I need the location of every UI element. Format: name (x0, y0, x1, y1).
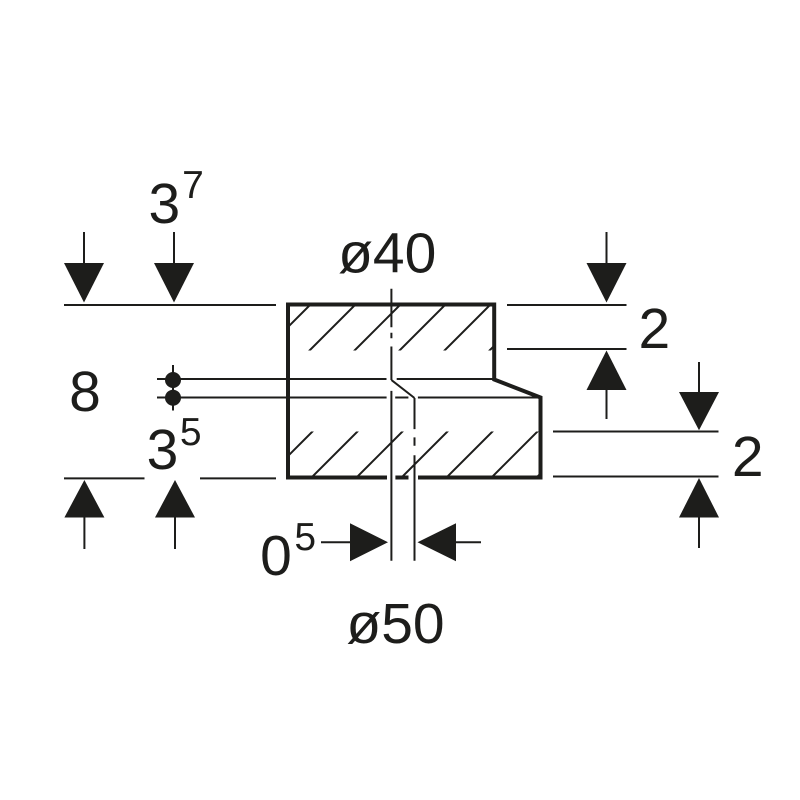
dimension line top right segment (507, 304, 627, 306)
dimension line lower-2 upper edge (553, 431, 719, 433)
8-dimension dot lower (165, 390, 181, 406)
svg-text:3: 3 (147, 418, 179, 482)
arrow up under lower-2 line (679, 478, 719, 548)
part outline (eccentric reducer body, thick) (288, 305, 541, 478)
centerline o50 (dash-dot) (414, 398, 416, 561)
dimension line top (3.7 level) left segment (64, 304, 276, 306)
8-dimension vertical stub through dots (172, 365, 174, 411)
arrow down above lower-2 line (679, 362, 719, 430)
hatching upper socket band (263, 301, 540, 353)
dimension line 3.5 level (left of part, gap for text) (64, 477, 145, 479)
centerline o40 (dash-dot) (390, 289, 392, 380)
arrow down top-left 2 (154, 232, 194, 303)
svg-text:5: 5 (180, 411, 202, 454)
svg-text:2: 2 (732, 425, 764, 489)
centerline jog diagonal (391, 380, 414, 398)
8-dimension upper line (157, 378, 494, 380)
svg-text:0: 0 (260, 524, 292, 588)
8-dimension dot upper (165, 372, 181, 388)
arrow down top-left 1 (64, 232, 104, 303)
0.5 offset leader right + left-pointing arrow (418, 523, 482, 561)
8-dimension lower line (157, 397, 539, 399)
arrow up bottom-left 2 (155, 480, 195, 549)
svg-text:ø50: ø50 (346, 592, 444, 656)
svg-text:5: 5 (294, 516, 316, 559)
0.5 offset leader left + right-pointing arrow (321, 523, 388, 561)
arrow down top-right (587, 232, 627, 303)
arrow up bottom-left 1 (64, 480, 104, 549)
dimension line lower-2 lower edge (553, 476, 719, 478)
svg-text:2: 2 (639, 297, 671, 361)
dimension line upper-2 lower edge (507, 348, 627, 350)
part bottom edge segments (gaps at centerline crossings) (288, 476, 541, 480)
hatching lower socket band (265, 427, 587, 479)
arrow up under upper-2 line (587, 351, 627, 420)
svg-text:7: 7 (182, 164, 204, 207)
svg-text:3: 3 (148, 172, 180, 236)
svg-text:8: 8 (69, 360, 101, 424)
svg-text:ø40: ø40 (338, 222, 436, 286)
centerline o40 extension below jog (390, 391, 392, 561)
